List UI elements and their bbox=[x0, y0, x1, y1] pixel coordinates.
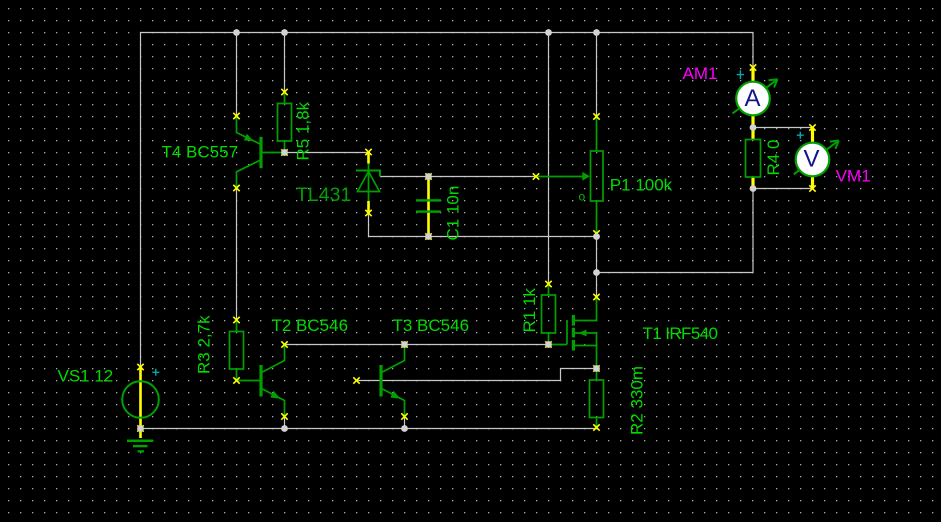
transistor T2 (NPN BC546) bbox=[237, 345, 285, 417]
wire: R5 bottom to TL431 cathode bbox=[285, 152, 369, 154]
resistor R5 1,8k bbox=[278, 92, 292, 153]
junction T2 emitter / rail bbox=[281, 425, 288, 432]
svg-text:R3 2,7k: R3 2,7k bbox=[195, 315, 214, 374]
wire: T4 emitter column bbox=[236, 33, 238, 117]
junction R1 bottom / T1 gate bbox=[545, 341, 552, 348]
ground bbox=[127, 440, 153, 453]
pin marker R2 bottom bbox=[593, 424, 599, 430]
wire: drain node right to R4/VM1 bottom bbox=[597, 189, 754, 273]
pin marker VS1 plus bbox=[137, 364, 143, 370]
wire: P1 column bbox=[596, 33, 598, 117]
pin marker R3 bottom / T2 base bbox=[233, 377, 239, 383]
TL431 U1 bbox=[356, 152, 380, 213]
wire: TL431 ref to P1 wiper bbox=[381, 176, 537, 178]
transistor T1 (NMOS IRF540) bbox=[549, 297, 597, 369]
svg-text:V: V bbox=[803, 146, 819, 173]
svg-text:A: A bbox=[744, 85, 760, 112]
svg-text:R5 1,8k: R5 1,8k bbox=[294, 101, 313, 160]
pin marker TL431 cathode bbox=[365, 149, 371, 155]
junction P1 bottom node bbox=[593, 233, 600, 240]
pin marker C1 bottom bbox=[425, 233, 431, 239]
junction R4 bottom bbox=[750, 185, 757, 192]
junction top rail / R1 bbox=[545, 29, 552, 36]
svg-text:T1 IRF540: T1 IRF540 bbox=[643, 324, 718, 343]
svg-text:R4 0: R4 0 bbox=[764, 140, 783, 176]
pin marker T2 collector bbox=[281, 341, 287, 347]
pin marker R5 bottom bbox=[281, 149, 287, 155]
transistor T3 (NPN BC546) bbox=[379, 345, 404, 417]
wire: bottom ground rail bbox=[141, 428, 597, 430]
voltage source VS1 bbox=[122, 367, 159, 438]
wire: P1 bottom node down to T1 drain bbox=[596, 237, 598, 297]
junction VS1 minus / rail bbox=[137, 425, 144, 432]
junction drain link node bbox=[593, 269, 600, 276]
svg-text:C1 10n: C1 10n bbox=[444, 186, 463, 241]
svg-text:o: o bbox=[579, 190, 586, 204]
junction AM1 bottom bbox=[750, 124, 757, 131]
pin marker R5 top bbox=[281, 89, 287, 95]
pin marker T4 emitter bbox=[233, 113, 239, 119]
resistor R3 2,7k bbox=[230, 320, 244, 381]
pin marker R1 bottom bbox=[545, 341, 551, 347]
pin marker VM1 bottom bbox=[809, 185, 815, 191]
wire: T2 emitter stub bbox=[284, 417, 286, 429]
wire: T3 emitter stub bbox=[404, 417, 406, 429]
svg-text:VM1: VM1 bbox=[836, 167, 871, 186]
plus mark AM1 bbox=[737, 70, 744, 79]
wire: R4 bottom to VM1 bottom bbox=[753, 188, 813, 190]
junction R5 bottom / T4 base bbox=[281, 149, 288, 156]
junction T1 source / R2 top bbox=[593, 365, 600, 372]
pin marker R3 top bbox=[233, 317, 239, 323]
junction top rail / R5 bbox=[281, 29, 288, 36]
wire: T2 collector rail to R1 bottom / T1 gate bbox=[285, 344, 550, 346]
wire: R1 column bbox=[548, 33, 550, 285]
pin marker P1 wiper bbox=[533, 173, 539, 179]
pin marker T4 collector bbox=[233, 185, 239, 191]
pin marker T3 base bbox=[353, 377, 359, 383]
pin marker T3 collector bbox=[401, 341, 407, 347]
wire: AM1 bottom to VM1 top bbox=[753, 127, 813, 129]
transistor T4 (PNP BC557) bbox=[237, 116, 285, 188]
pin marker VM1 top bbox=[809, 124, 815, 130]
resistor R1 1k bbox=[542, 284, 556, 345]
pin marker T1 drain bbox=[593, 294, 599, 300]
junction top rail / T4 emitter bbox=[233, 29, 240, 36]
plus mark VM1 bbox=[797, 132, 804, 139]
junction top rail / P1 bbox=[593, 29, 600, 36]
pin marker R1 top bbox=[545, 281, 551, 287]
svg-text:R1 1k: R1 1k bbox=[520, 288, 539, 333]
pin marker P1 bottom bbox=[593, 230, 599, 236]
wire: T4 collector down to R3 bbox=[236, 188, 238, 320]
plus mark VS1 bbox=[152, 369, 159, 376]
svg-text:T3 BC546: T3 BC546 bbox=[393, 316, 470, 335]
svg-text:P1 100k: P1 100k bbox=[610, 176, 673, 195]
capacitor C1 10n bbox=[416, 177, 441, 237]
resistor R4 0 bbox=[746, 128, 761, 189]
pin marker T3 emitter bbox=[401, 413, 407, 419]
pin marker T2 emitter bbox=[281, 413, 287, 419]
svg-text:TL431: TL431 bbox=[296, 184, 351, 206]
junction C1 top bbox=[425, 173, 432, 180]
wire: left column + top rail + right drop to AM1 bbox=[141, 33, 754, 368]
pin marker TL431 anode bbox=[365, 210, 371, 216]
potentiometer P1 100k bbox=[536, 117, 603, 237]
pin marker AM1 top bbox=[750, 64, 756, 70]
junction T3 collector bbox=[401, 341, 408, 348]
pin marker T1 source bbox=[593, 365, 599, 371]
wire: T3 base sense wire to R2 top bbox=[357, 369, 597, 381]
svg-text:R2 330m: R2 330m bbox=[628, 366, 647, 435]
pin marker P1 top bbox=[593, 113, 599, 119]
pin marker VS1 minus bbox=[137, 425, 143, 431]
junction T3 emitter / rail bbox=[401, 425, 408, 432]
wire: R5 column bbox=[284, 33, 286, 93]
junction C1 bottom bbox=[425, 233, 432, 240]
svg-text:VS1 12: VS1 12 bbox=[58, 366, 114, 385]
ammeter AM1 bbox=[733, 68, 778, 128]
svg-text:AM1: AM1 bbox=[683, 64, 718, 83]
svg-text:T4 BC557: T4 BC557 bbox=[162, 142, 239, 161]
resistor R2 330m bbox=[590, 369, 604, 428]
voltmeter VM1 bbox=[794, 128, 839, 189]
pin marker C1 top bbox=[425, 173, 431, 179]
wire: TL431 anode to P1 bottom node bbox=[369, 213, 597, 237]
svg-text:T2 BC546: T2 BC546 bbox=[272, 316, 349, 335]
